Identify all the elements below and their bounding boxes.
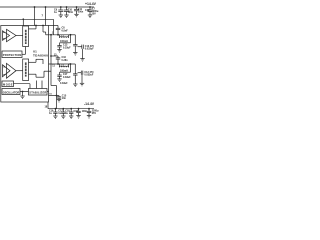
label C17 xyxy=(63,73,71,79)
oscillator block xyxy=(2,89,20,95)
resistor network box R2 xyxy=(23,59,29,81)
label OSCILLATOR xyxy=(3,90,20,94)
ground C20 xyxy=(57,99,61,102)
svg-text:0.033uF: 0.033uF xyxy=(85,48,94,51)
label C16 xyxy=(62,56,69,62)
node on rail at x60.8 xyxy=(60,6,62,8)
wire stabilizer out xyxy=(47,91,49,93)
node stub C16 xyxy=(50,55,52,57)
node at 58,34.6 xyxy=(57,34,59,36)
svg-text:TDA8560: TDA8560 xyxy=(33,54,48,58)
svg-text:10n: 10n xyxy=(62,97,67,100)
capacitor C25 bottom xyxy=(87,109,91,116)
node bottom rail x55.4 xyxy=(55,108,57,110)
label C9 100n xyxy=(54,9,58,15)
node bottom rail x63.3 xyxy=(62,108,64,110)
pin 11 label xyxy=(52,65,55,68)
pin 15 label xyxy=(49,94,52,96)
ground C24 xyxy=(76,116,80,119)
capacitor C24 bottom xyxy=(76,109,80,116)
node bottom rail x89 xyxy=(88,108,90,110)
capacitor C14b series A xyxy=(78,45,84,49)
capacitor C11 decoupling xyxy=(74,7,79,14)
wire U1A out to top edge xyxy=(29,26,37,29)
ground C23 xyxy=(69,116,73,119)
wire stub to C16 xyxy=(51,55,58,57)
ground for C17 xyxy=(57,79,61,82)
label 0.33u bottom xyxy=(60,82,68,85)
label C21 xyxy=(49,110,54,116)
label C18b values B xyxy=(84,71,94,77)
capacitor C18 dc block xyxy=(73,74,77,84)
wire bottom -supply rail xyxy=(48,108,94,110)
node IC top x36 xyxy=(35,25,37,27)
svg-text:6.8nF: 6.8nF xyxy=(62,29,69,32)
ground C25 xyxy=(87,116,91,119)
label L1 xyxy=(61,35,64,38)
node rail2 x23.3 xyxy=(22,18,24,20)
op-amp U1B xyxy=(3,63,17,78)
svg-text:18: 18 xyxy=(45,106,48,109)
wire output A y34.6 xyxy=(49,34,71,36)
svg-text:0.28n: 0.28n xyxy=(62,59,69,62)
wire U1B output xyxy=(16,70,23,72)
wire supply pin drop x34.5 xyxy=(34,7,36,26)
node on rail at x34.5 xyxy=(34,6,36,8)
wire IC top stub to C8 xyxy=(49,25,59,27)
label PROTECTION xyxy=(3,53,22,57)
svg-text:11: 11 xyxy=(52,65,55,68)
svg-text:0.33uF: 0.33uF xyxy=(63,46,71,49)
inductor L1 xyxy=(58,35,71,38)
label C12 xyxy=(85,9,90,12)
label 2200u 25V xyxy=(92,8,99,16)
capacitor C20 xyxy=(57,96,61,100)
label U1 xyxy=(33,50,37,54)
label MODE xyxy=(3,82,13,86)
ground for C14 xyxy=(73,53,77,56)
label -14.4V supply xyxy=(84,102,95,106)
label C8 6.8n xyxy=(62,27,69,33)
svg-text:7: 7 xyxy=(42,14,44,18)
label TDA8560 xyxy=(33,54,48,58)
svg-text:STABILIZER: STABILIZER xyxy=(29,91,46,95)
wire mode to right xyxy=(14,84,31,89)
node oscillator wire xyxy=(22,91,24,93)
ground for C10 xyxy=(64,15,68,18)
ground right A xyxy=(80,59,84,62)
protection block xyxy=(2,51,22,58)
svg-text:25V: 25V xyxy=(92,112,97,115)
node bus top xyxy=(50,34,52,36)
label C14b values A xyxy=(85,45,95,51)
wire internal feedback x36.5 xyxy=(36,81,38,89)
label C11 100n xyxy=(78,8,84,14)
wire supply pin drop x45.5 xyxy=(45,7,47,26)
pin 7 label xyxy=(42,14,44,18)
capacitor C16 xyxy=(56,56,60,64)
svg-text:100n: 100n xyxy=(82,110,88,113)
node filter out B xyxy=(70,63,72,65)
ground for C18 xyxy=(73,84,77,87)
wire internal feedback x42 xyxy=(41,81,43,89)
wire U1B out staircase lower xyxy=(29,71,49,77)
wire bus x51 down xyxy=(51,35,57,109)
label +14.4V supply xyxy=(85,2,97,6)
op-amp U1A input marks xyxy=(3,33,4,39)
node on rail at x76.5 xyxy=(76,6,78,8)
label C22 xyxy=(58,110,63,116)
node on rail at x45.5 xyxy=(45,6,47,8)
capacitor C21 bottom xyxy=(53,109,57,116)
node IC top x43 xyxy=(42,25,44,27)
svg-text:PROTECTION: PROTECTION xyxy=(3,53,22,57)
label STABILIZER xyxy=(29,91,46,95)
wire protection to R1 xyxy=(22,47,26,55)
pin 1 label xyxy=(52,32,54,35)
label C10 xyxy=(68,9,74,15)
label 100mH L2 xyxy=(60,69,68,72)
node on rail at x66.5 xyxy=(66,6,68,8)
capacitor C22 bottom xyxy=(61,109,65,116)
resistor network box R1 xyxy=(23,26,29,47)
svg-text:0.33uF: 0.33uF xyxy=(63,76,71,79)
wire pin B2 to bus xyxy=(49,70,52,72)
node bottom rail x78.5 xyxy=(78,108,80,110)
pin 18 label xyxy=(45,106,48,109)
op-amp U1B input marks xyxy=(3,67,4,75)
capacitor C10 decoupling xyxy=(64,7,69,15)
ground C22 xyxy=(61,116,65,119)
svg-text:100n: 100n xyxy=(68,11,74,14)
pin 13 label xyxy=(54,53,57,56)
capacitor C17 shunt xyxy=(57,72,61,79)
capacitor C18b series B xyxy=(78,71,83,75)
node on rail at x90 xyxy=(89,6,91,8)
label C22b xyxy=(65,110,70,116)
label C20 xyxy=(62,95,67,101)
label C24 100n xyxy=(74,110,88,113)
node pin bottom xyxy=(56,95,58,97)
op-amp U1A xyxy=(3,29,17,41)
svg-text:OSCILLATOR: OSCILLATOR xyxy=(3,90,20,94)
wire top +supply rail xyxy=(0,6,94,8)
node at 58,64 xyxy=(57,63,59,65)
node bottom rail x71.2 xyxy=(70,108,72,110)
svg-text:C12: C12 xyxy=(85,9,90,12)
capacitor C14 dc block xyxy=(73,45,77,53)
svg-text:0.033uF: 0.033uF xyxy=(84,74,93,77)
svg-text:C18: C18 xyxy=(74,110,79,113)
wire IC bottom drop xyxy=(47,102,49,109)
wire drop x23.3 into IC xyxy=(22,19,24,26)
node filter out A xyxy=(70,34,72,36)
svg-text:+14.4V: +14.4V xyxy=(85,2,97,6)
label C25 2200u xyxy=(92,110,99,116)
capacitor C12 electrolytic xyxy=(88,7,93,15)
wire output B y64 xyxy=(49,63,71,65)
ground for C9 xyxy=(59,15,63,18)
wire U1B out staircase upper xyxy=(29,59,44,64)
wire U1A output xyxy=(16,35,23,37)
ground C21 xyxy=(53,116,57,119)
inductor L2 xyxy=(58,64,71,67)
label R2 50k vertical xyxy=(25,62,27,76)
label L2 xyxy=(61,64,64,67)
svg-text:MODE: MODE xyxy=(3,82,13,86)
wire shunt branch A xyxy=(60,35,71,43)
svg-text:-14.4V: -14.4V xyxy=(84,102,95,106)
ground for C11 xyxy=(74,14,78,17)
capacitor C23 bottom xyxy=(69,109,73,116)
label R1 50k vertical xyxy=(25,30,27,44)
capacitor C8 xyxy=(56,26,60,35)
svg-text:0.33uF: 0.33uF xyxy=(60,82,68,85)
ground for C13 xyxy=(57,50,61,53)
ground right B xyxy=(80,83,84,86)
wire pin bottom y95.5 xyxy=(49,95,60,97)
wire U1A out- staircase xyxy=(43,26,49,35)
wire second rail y19.3 xyxy=(0,18,53,20)
IC U1 outline xyxy=(1,26,49,103)
ground for C12 xyxy=(88,15,92,18)
wire down right A xyxy=(82,49,84,59)
ground on oscillator wire xyxy=(20,92,24,99)
mode block xyxy=(2,81,14,87)
label C13 0.33u xyxy=(63,44,71,50)
capacitor C13 shunt xyxy=(57,43,61,50)
wire down right B xyxy=(81,75,83,84)
stabilizer block xyxy=(29,89,48,96)
wire out B to right xyxy=(71,64,76,74)
capacitor C9 decoupling xyxy=(58,7,63,15)
wire out A to right xyxy=(71,35,76,45)
wire drop x53.4 to output node xyxy=(52,19,54,34)
wire oscillator to stabilizer xyxy=(20,91,29,93)
wire shunt branch B xyxy=(60,64,71,72)
label 100mH xyxy=(60,40,68,43)
svg-text:100n: 100n xyxy=(78,11,84,14)
